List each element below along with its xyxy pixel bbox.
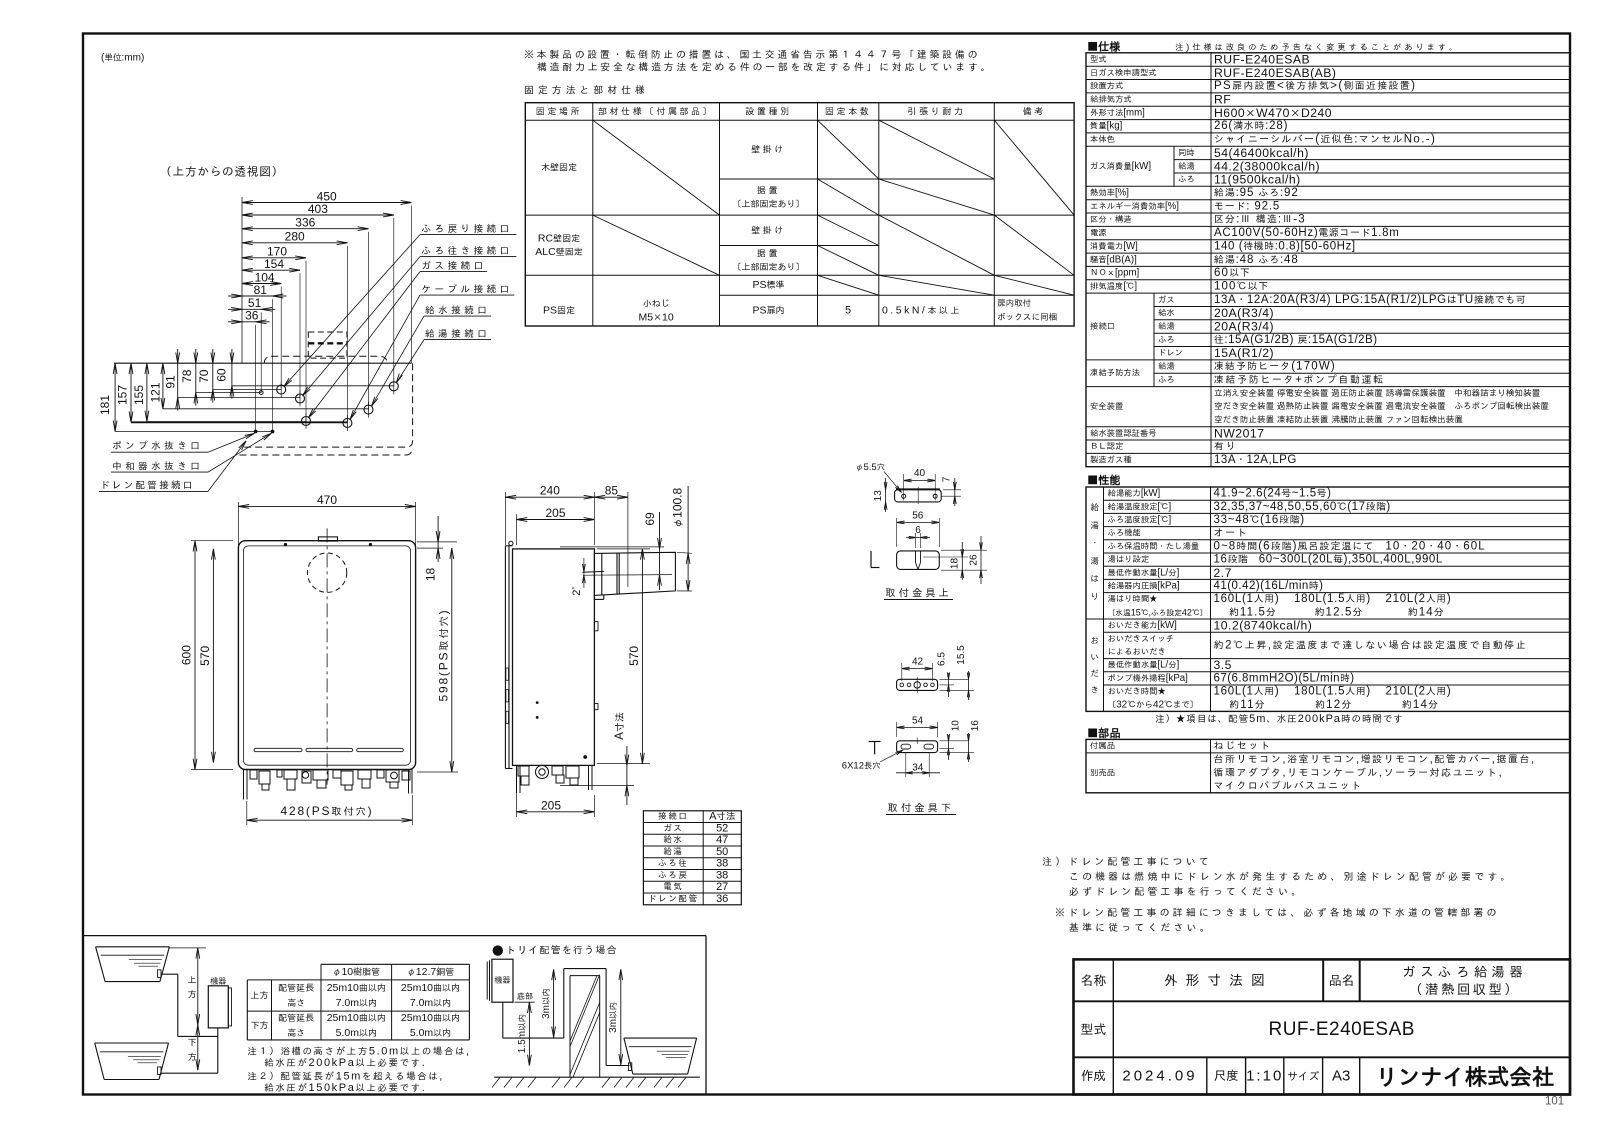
- svg-text:154: 154: [264, 257, 284, 271]
- svg-text:騒音[dB(A)]: 騒音[dB(A)]: [1090, 254, 1137, 265]
- fixing table diagonals: [593, 120, 720, 215]
- svg-text:160L(1人用) 180L(1.5人用) 210L(: 160L(1人用) 180L(1.5人用) 210L(2人用): [1214, 593, 1452, 605]
- svg-text:給湯: 給湯: [1158, 361, 1175, 372]
- bracket lower plate1: [897, 679, 938, 690]
- svg-text:ふろ: ふろ: [1178, 174, 1195, 185]
- svg-text:7.0m以内: 7.0m以内: [410, 997, 451, 1009]
- svg-text:ガス接続口: ガス接続口: [421, 260, 486, 272]
- svg-text:600: 600: [180, 645, 194, 665]
- svg-text:36: 36: [716, 893, 728, 905]
- svg-text:※本製品の設置・転倒防止の措置は、国土交通省告示第１４４７号: ※本製品の設置・転倒防止の措置は、国土交通省告示第１４４７号「建築設備の: [524, 49, 980, 61]
- svg-text:付属品: 付属品: [1090, 741, 1115, 752]
- svg-text:外形寸法図: 外形寸法図: [1164, 972, 1273, 989]
- side view bottom connectors: [518, 766, 529, 776]
- svg-text:機器: 機器: [494, 975, 511, 986]
- svg-text:区分・構造: 区分・構造: [1090, 214, 1132, 225]
- svg-text:おいだき能力[kW]: おいだき能力[kW]: [1108, 620, 1177, 631]
- svg-text:給排気方式: 給排気方式: [1090, 94, 1132, 105]
- svg-text:25m10曲以内: 25m10曲以内: [401, 982, 460, 994]
- svg-text:RC壁固定: RC壁固定: [538, 233, 580, 245]
- svg-text:取付金具下: 取付金具下: [888, 801, 955, 815]
- svg-text:尺度: 尺度: [1214, 1068, 1239, 1084]
- torii dim 3m以内 left: [553, 969, 555, 1037]
- svg-text:φ100.8: φ100.8: [671, 488, 685, 529]
- svg-text:注１）浴槽の高さが上方5.0m以上の場合は,: 注１）浴槽の高さが上方5.0m以上の場合は,: [247, 1046, 470, 1058]
- svg-text:5.0m以内: 5.0m以内: [410, 1027, 451, 1039]
- svg-text:240: 240: [540, 484, 560, 498]
- svg-text:A寸法: A寸法: [709, 811, 735, 823]
- svg-text:(単位:mm): (単位:mm): [101, 53, 144, 64]
- svg-text:中和器水抜き口: 中和器水抜き口: [112, 461, 203, 473]
- side view dim 240: [504, 492, 506, 545]
- svg-text:ＢＬ認定: ＢＬ認定: [1090, 441, 1124, 452]
- svg-text:製造ガス種: 製造ガス種: [1090, 455, 1132, 466]
- svg-text:壁掛け: 壁掛け: [751, 144, 786, 156]
- perspective dim extension verticals: [411, 206, 413, 364]
- bracket hook profile: [897, 551, 940, 570]
- svg-text:25m10曲以内: 25m10曲以内: [401, 1012, 460, 1024]
- perspective top reference line: [114, 362, 412, 364]
- svg-text:下方: 下方: [250, 1020, 268, 1032]
- svg-text:高さ: 高さ: [287, 1027, 305, 1039]
- svg-text:1:10: 1:10: [1246, 1067, 1283, 1084]
- svg-text:は: は: [1090, 574, 1099, 585]
- svg-text:18: 18: [949, 558, 960, 570]
- svg-text:25m10曲以内: 25m10曲以内: [327, 1012, 386, 1024]
- svg-text:基準に従ってください。: 基準に従ってください。: [1069, 922, 1213, 934]
- svg-text:固定本数: 固定本数: [825, 106, 871, 118]
- svg-text:接続口: 接続口: [1090, 321, 1115, 332]
- side view left wall: [504, 546, 506, 769]
- svg-text:機器: 機器: [210, 976, 227, 987]
- svg-text:排気温度[℃]: 排気温度[℃]: [1090, 281, 1137, 292]
- svg-text:配管延長: 配管延長: [278, 982, 315, 994]
- bracket dim 40: [903, 474, 905, 492]
- svg-text:18: 18: [424, 568, 438, 582]
- svg-text:固定方法と部材仕様: 固定方法と部材仕様: [524, 85, 649, 97]
- svg-text:リンナイ株式会社: リンナイ株式会社: [1375, 1061, 1554, 1091]
- front view dashed exhaust circle: [307, 553, 346, 592]
- svg-text:A3: A3: [1332, 1067, 1350, 1084]
- svg-text:ドレン: ドレン: [1158, 348, 1183, 359]
- svg-text:157: 157: [116, 385, 130, 405]
- svg-text:方: 方: [187, 989, 196, 1001]
- front view dim 428(PS取付穴): [246, 801, 248, 825]
- piping dim 下方: [197, 1025, 199, 1070]
- svg-text:マイクロバブルバスユニット: マイクロバブルバスユニット: [1214, 780, 1363, 792]
- svg-text:接続口: 接続口: [658, 811, 688, 822]
- svg-text:〔32℃から42℃まで〕: 〔32℃から42℃まで〕: [1108, 699, 1199, 710]
- svg-text:給水装置認証番号: 給水装置認証番号: [1090, 428, 1157, 439]
- torii 機器 box: [492, 959, 513, 1002]
- svg-text:湯: 湯: [1090, 520, 1099, 531]
- svg-text:16: 16: [970, 720, 981, 732]
- svg-text:外形寸法[mm]: 外形寸法[mm]: [1090, 107, 1145, 118]
- perspective port horizontal lines: [232, 385, 394, 387]
- svg-text:205: 205: [541, 798, 561, 812]
- bracket dim 34: [905, 752, 907, 777]
- torii pipe: [502, 1002, 504, 1038]
- svg-text:熱効率[%]: 熱効率[%]: [1090, 188, 1129, 199]
- svg-text:25m10曲以内: 25m10曲以内: [327, 982, 386, 994]
- perspective ports: [277, 385, 286, 394]
- side view dim 85: [627, 492, 629, 587]
- svg-text:A寸法: A寸法: [614, 712, 626, 740]
- svg-text:121: 121: [149, 382, 163, 402]
- svg-text:13: 13: [873, 490, 884, 502]
- bracket upper plate: [895, 490, 942, 502]
- svg-text:PS扉内: PS扉内: [752, 305, 784, 317]
- svg-text:本体色: 本体色: [1090, 134, 1115, 145]
- svg-text:ガスふろ給湯器: ガスふろ給湯器: [1402, 964, 1527, 981]
- svg-text:給水接続口: 給水接続口: [425, 305, 490, 317]
- svg-text:570: 570: [627, 646, 641, 666]
- svg-text:（上方からの透視図）: （上方からの透視図）: [160, 164, 284, 179]
- svg-text:凍結予防方法: 凍結予防方法: [1090, 368, 1140, 379]
- svg-text:り: り: [1090, 592, 1099, 603]
- svg-text:必ずドレン配管工事を行ってください。: 必ずドレン配管工事を行ってください。: [1069, 886, 1304, 898]
- svg-text:13A・12A,LPG: 13A・12A,LPG: [1214, 454, 1297, 466]
- svg-text:52: 52: [716, 822, 728, 834]
- bracket dim 56: [896, 518, 898, 547]
- svg-text:〔水温15℃,ふろ設定42℃〕: 〔水温15℃,ふろ設定42℃〕: [1108, 607, 1208, 617]
- bracket dims 18 26: [923, 556, 968, 558]
- svg-text:部材仕様〔付属部品〕: 部材仕様〔付属部品〕: [598, 106, 714, 118]
- svg-text:140 (待機時:0.8)[50-60Hz]: 140 (待機時:0.8)[50-60Hz]: [1214, 240, 1356, 252]
- piping tub upper-left: [96, 946, 170, 948]
- svg-text:給湯: 給湯: [1178, 161, 1195, 172]
- svg-text:同時: 同時: [1178, 147, 1195, 158]
- svg-text:6.5: 6.5: [936, 652, 947, 666]
- front view top flue bump: [318, 537, 337, 541]
- svg-text:木壁固定: 木壁固定: [541, 162, 577, 174]
- side view flue centerline: [583, 574, 672, 577]
- side view dim phi100.8: [677, 552, 692, 553]
- performance table grid: [1086, 487, 1570, 711]
- fixing-method table grid: [525, 103, 1074, 326]
- svg-text:給湯: 給湯: [1158, 321, 1175, 332]
- svg-text:67(6.8mmH2O)(5L/min時): 67(6.8mmH2O)(5L/min時): [1214, 672, 1355, 684]
- svg-text:壁掛け: 壁掛け: [751, 224, 786, 236]
- bracket dim 6: [915, 533, 917, 548]
- svg-text:M5×10: M5×10: [638, 312, 673, 324]
- svg-text:6: 6: [915, 525, 921, 536]
- svg-text:い: い: [1090, 652, 1099, 663]
- svg-text:固定場所: 固定場所: [536, 106, 582, 118]
- svg-text:ガス: ガス: [1158, 294, 1175, 305]
- front view centerline: [326, 528, 328, 784]
- spec table grid: [1086, 53, 1570, 467]
- svg-text:配管延長: 配管延長: [278, 1012, 315, 1024]
- ground line and hatching: [494, 1076, 700, 1078]
- svg-text:85: 85: [605, 484, 619, 498]
- svg-text:78: 78: [180, 369, 194, 383]
- side view left wall slots: [506, 668, 509, 680]
- svg-text:立消え安全装置 停電安全装置 過圧防止装置 誘導雷保護装置: 立消え安全装置 停電安全装置 過圧防止装置 誘導雷保護装置 中和器詰まり検知装置: [1214, 388, 1541, 399]
- svg-text:〔上部固定あり〕: 〔上部固定あり〕: [732, 198, 804, 210]
- svg-text:10: 10: [950, 720, 961, 732]
- svg-text:H600×W470×D240: H600×W470×D240: [1214, 106, 1332, 120]
- front view legs: [243, 770, 245, 800]
- svg-text:注）★項目は、配管5m、水圧200kPa時の時間です: 注）★項目は、配管5m、水圧200kPa時の時間です: [1155, 713, 1404, 725]
- svg-text:0~8時間(6段階)風呂設定温にて 10・20・40・60L: 0~8時間(6段階)風呂設定温にて 10・20・40・60L: [1214, 540, 1486, 552]
- front view dim 18: [417, 541, 457, 543]
- svg-text:1.5m以内: 1.5m以内: [517, 1014, 528, 1053]
- svg-text:区分:Ⅲ 構造:Ⅲ-3: 区分:Ⅲ 構造:Ⅲ-3: [1214, 214, 1306, 226]
- svg-text:54: 54: [912, 716, 924, 727]
- svg-text:38: 38: [716, 869, 728, 881]
- svg-text:160L(1人用) 180L(1.5人用) 210L(: 160L(1人用) 180L(1.5人用) 210L(2人用): [1214, 686, 1452, 698]
- svg-text:ふろ戻り接続口: ふろ戻り接続口: [421, 223, 512, 235]
- svg-text:11(9500kcal/h): 11(9500kcal/h): [1214, 173, 1301, 187]
- svg-text:69: 69: [643, 512, 657, 526]
- svg-text:ドレン配管接続口: ドレン配管接続口: [100, 480, 195, 492]
- svg-text:428(PS取付穴): 428(PS取付穴): [281, 804, 374, 818]
- svg-text:上: 上: [187, 974, 196, 986]
- piping box: [83, 935, 706, 937]
- front view dim 600: [191, 540, 233, 542]
- svg-text:205: 205: [545, 506, 565, 520]
- svg-text:消費電力[W]: 消費電力[W]: [1090, 241, 1138, 252]
- svg-text:φ12.7銅管: φ12.7銅管: [407, 966, 454, 978]
- svg-text:φ5.5穴: φ5.5穴: [855, 462, 885, 473]
- svg-text:〔上部固定あり〕: 〔上部固定あり〕: [732, 261, 804, 273]
- svg-text:60: 60: [214, 368, 228, 382]
- svg-text:空だき防止装置 凍結防止装置 沸騰防止装置 ファン回転検出装: 空だき防止装置 凍結防止装置 沸騰防止装置 ファン回転検出装置: [1214, 415, 1463, 426]
- svg-text:44.2(38000kcal/h): 44.2(38000kcal/h): [1214, 159, 1320, 173]
- front view dim 570: [212, 549, 214, 763]
- svg-text:570: 570: [198, 645, 212, 665]
- svg-text:5.0m以内: 5.0m以内: [336, 1027, 377, 1039]
- svg-text:42: 42: [912, 657, 924, 668]
- perspective drain dots: [254, 430, 258, 434]
- side view dim 205 bottom: [516, 770, 518, 817]
- A-dimension table: [643, 811, 741, 905]
- svg-text:0.5kN/本以上: 0.5kN/本以上: [882, 305, 962, 317]
- side view dots: [536, 701, 539, 704]
- svg-text:下: 下: [187, 1037, 196, 1049]
- svg-text:扉内取付: 扉内取付: [997, 298, 1031, 309]
- parts table grid: [1086, 739, 1570, 792]
- svg-text:336: 336: [295, 216, 315, 230]
- perspective left extension line: [241, 197, 243, 363]
- side view body: [513, 549, 595, 766]
- perspective horizontal dims (top ladder): [242, 202, 412, 204]
- svg-text:RUF-E240ESAB: RUF-E240ESAB: [1268, 1019, 1414, 1040]
- svg-text:60以下: 60以下: [1214, 267, 1251, 279]
- svg-text:型式: 型式: [1081, 1021, 1107, 1038]
- svg-text:41.9~2.6(24号~1.5号): 41.9~2.6(24号~1.5号): [1214, 488, 1332, 500]
- side view flue assembly: [594, 552, 675, 595]
- svg-text:50: 50: [716, 846, 728, 858]
- svg-text:約11分 約12分 約14分: 約11分 約12分 約14分: [1214, 699, 1440, 711]
- svg-text:470: 470: [317, 493, 337, 507]
- svg-text:凍結予防ヒータ(170W): 凍結予防ヒータ(170W): [1214, 361, 1336, 373]
- front view bottom connectors: [250, 770, 257, 779]
- side view right tabs: [594, 622, 598, 631]
- bracket dims 6.5 15.5: [940, 684, 955, 686]
- svg-text:設置方式: 設置方式: [1090, 81, 1124, 92]
- svg-text:7: 7: [942, 476, 953, 482]
- svg-text:湯: 湯: [1090, 556, 1099, 567]
- bracket dim 7: [943, 489, 961, 491]
- front view louvers: [254, 748, 302, 751]
- svg-text:ふろ: ふろ: [1158, 334, 1175, 345]
- svg-text:方: 方: [187, 1051, 196, 1063]
- svg-text:■部品: ■部品: [1087, 725, 1121, 740]
- side view legs: [516, 765, 518, 793]
- svg-text:最低作動水量[L/分]: 最低作動水量[L/分]: [1108, 660, 1180, 671]
- svg-text:20A(R3/4): 20A(R3/4): [1214, 306, 1274, 320]
- bracket L mark upper: [870, 551, 872, 568]
- svg-text:有り: 有り: [1214, 441, 1237, 453]
- svg-text:安全装置: 安全装置: [1090, 401, 1123, 412]
- svg-text:PS固定: PS固定: [543, 305, 575, 317]
- svg-text:質量[kg]: 質量[kg]: [1090, 121, 1122, 132]
- perspective body dashed outline: [412, 363, 414, 441]
- svg-text:PS標準: PS標準: [752, 279, 784, 291]
- svg-text:据置: 据置: [757, 184, 780, 196]
- piping tub lower-left: [95, 1042, 169, 1044]
- svg-text:3m以内: 3m以内: [541, 988, 552, 1019]
- piping table: [321, 963, 469, 965]
- svg-text:別売品: 別売品: [1090, 767, 1115, 778]
- svg-text:26: 26: [969, 554, 980, 566]
- svg-text:ポンプ水抜き口: ポンプ水抜き口: [112, 440, 203, 452]
- svg-text:27: 27: [716, 881, 728, 893]
- svg-text:RUF-E240ESAB(AB): RUF-E240ESAB(AB): [1214, 66, 1336, 80]
- svg-text:41(0.42)(16L/min時): 41(0.42)(16L/min時): [1214, 580, 1324, 592]
- title block lines: [1074, 1000, 1571, 1002]
- svg-text:ALC壁固定: ALC壁固定: [535, 246, 582, 258]
- svg-text:2024.09: 2024.09: [1122, 1067, 1197, 1084]
- svg-text:6X12長穴: 6X12長穴: [842, 761, 881, 772]
- svg-text:給湯: 給湯: [663, 846, 683, 857]
- svg-text:ＮＯｘ[ppm]: ＮＯｘ[ppm]: [1090, 268, 1139, 279]
- svg-text:101: 101: [1545, 1096, 1564, 1108]
- svg-text:100℃以下: 100℃以下: [1214, 281, 1269, 293]
- front view dim 470: [237, 502, 239, 547]
- svg-text:5: 5: [845, 305, 851, 317]
- svg-text:13A・12A:20A(R3/4) LPG:15A(R1/2: 13A・12A:20A(R3/4) LPG:15A(R1/2)LPGはTU接続で…: [1214, 294, 1526, 306]
- svg-text:ねじセット: ねじセット: [1214, 740, 1272, 752]
- perspective dashed top-front edge: [264, 356, 387, 363]
- torii dim 3m以内 right: [620, 969, 622, 1064]
- svg-text:お: お: [1090, 636, 1099, 647]
- svg-text:※ドレン配管工事の詳細につきましては、必ず各地域の下水道の管: ※ドレン配管工事の詳細につきましては、必ず各地域の下水道の管轄部署の: [1055, 907, 1500, 919]
- svg-text:電気: 電気: [663, 882, 683, 893]
- svg-text:RUF-E240ESAB: RUF-E240ESAB: [1214, 53, 1310, 67]
- svg-text:ふろ温度設定[℃]: ふろ温度設定[℃]: [1108, 515, 1172, 526]
- front view body outline: [238, 541, 415, 770]
- svg-text:■性能: ■性能: [1087, 472, 1121, 487]
- svg-text:598(PS取付穴): 598(PS取付穴): [437, 609, 451, 702]
- svg-text:循環アダプタ,リモコンケーブル,ソーラー対応ユニット,: 循環アダプタ,リモコンケーブル,ソーラー対応ユニット,: [1213, 767, 1504, 779]
- svg-text:70: 70: [197, 369, 211, 383]
- svg-text:作成: 作成: [1081, 1068, 1106, 1084]
- svg-text:給水圧が150kPa以上必要です.: 給水圧が150kPa以上必要です.: [264, 1082, 426, 1094]
- svg-text:ドレン配管: ドレン配管: [648, 893, 698, 904]
- svg-text:給湯能力[kW]: 給湯能力[kW]: [1108, 488, 1161, 499]
- bracket dims 10 16: [940, 747, 955, 749]
- svg-text:約2℃上昇,設定温度まで達しない場合は設定温度で自動停止: 約2℃上昇,設定温度まで達しない場合は設定温度で自動停止: [1214, 639, 1528, 651]
- svg-text:91: 91: [163, 375, 177, 389]
- svg-text:ふろ保温時間・たし湯量: ふろ保温時間・たし湯量: [1108, 541, 1200, 552]
- svg-text:ガス消費量[kW]: ガス消費量[kW]: [1090, 161, 1151, 172]
- svg-text:給水: 給水: [663, 835, 683, 846]
- svg-text:給湯温度設定[℃]: 給湯温度設定[℃]: [1108, 501, 1172, 512]
- svg-text:給湯:48 ふろ:48: 給湯:48 ふろ:48: [1214, 254, 1299, 266]
- svg-text:10.2(8740kcal/h): 10.2(8740kcal/h): [1214, 619, 1313, 633]
- svg-text:によるおいだき: によるおいだき: [1108, 647, 1166, 658]
- svg-text:給水: 給水: [1158, 308, 1175, 319]
- svg-text:20A(R3/4): 20A(R3/4): [1214, 320, 1274, 334]
- svg-text:ふろ往: ふろ往: [658, 858, 688, 869]
- svg-text:高さ: 高さ: [287, 997, 305, 1009]
- svg-text:34: 34: [912, 763, 924, 774]
- svg-text:2.7: 2.7: [1214, 566, 1232, 580]
- svg-text:給水圧が200kPa以上必要です.: 給水圧が200kPa以上必要です.: [264, 1057, 426, 1069]
- svg-text:最低作動水量[L/分]: 最低作動水量[L/分]: [1108, 567, 1180, 578]
- side view dim 205 top: [516, 514, 518, 545]
- svg-text:26(満水時:28): 26(満水時:28): [1214, 120, 1288, 132]
- svg-text:ふろ戻: ふろ戻: [658, 870, 688, 881]
- svg-text:この機器は燃焼中にドレン水が発生するため、別途ドレン配管が必: この機器は燃焼中にドレン水が発生するため、別途ドレン配管が必要です。: [1069, 871, 1514, 883]
- svg-text:備考: 備考: [1023, 106, 1046, 118]
- svg-text:き: き: [1090, 685, 1099, 696]
- svg-text:おいだきスイッチ: おいだきスイッチ: [1108, 633, 1175, 644]
- svg-text:モード: 92.5: モード: 92.5: [1214, 200, 1280, 212]
- title block outer: [1074, 959, 1571, 1094]
- front view top screws: [284, 543, 287, 546]
- svg-text:品名: 品名: [1329, 972, 1355, 989]
- piping pipe route left diagram: [161, 973, 178, 975]
- front view dim 598(PS取付穴): [417, 771, 458, 773]
- svg-text:おいだき時間★: おいだき時間★: [1108, 686, 1166, 697]
- svg-text:15A(R1/2): 15A(R1/2): [1214, 346, 1274, 360]
- svg-text:7.0m以内: 7.0m以内: [336, 997, 377, 1009]
- bracket dim 42: [901, 663, 903, 681]
- svg-text:ふろ: ふろ: [1158, 374, 1175, 385]
- svg-text:小ねじ: 小ねじ: [643, 298, 670, 310]
- svg-text:40: 40: [914, 468, 926, 479]
- svg-text:湯はり設定: 湯はり設定: [1108, 554, 1150, 565]
- svg-text:・: ・: [1090, 538, 1099, 549]
- svg-text:エネルギー消費効率[%]: エネルギー消費効率[%]: [1090, 201, 1179, 212]
- svg-text:181: 181: [98, 395, 112, 415]
- svg-text:取付金具上: 取付金具上: [885, 586, 952, 600]
- svg-text:（潜熱回収型）: （潜熱回収型）: [1409, 981, 1520, 998]
- svg-text:81: 81: [254, 283, 268, 297]
- svg-text:NW2017: NW2017: [1214, 426, 1264, 440]
- svg-text:底部: 底部: [517, 991, 533, 1002]
- svg-text:台所リモコン,浴室リモコン,増設リモコン,配管カバー,据置台: 台所リモコン,浴室リモコン,増設リモコン,配管カバー,据置台,: [1214, 754, 1536, 766]
- svg-text:ポンプ機外揚程[kPa]: ポンプ機外揚程[kPa]: [1108, 673, 1188, 684]
- svg-text:注)仕様は改良のため予告なく変更することがあります。: 注)仕様は改良のため予告なく変更することがあります。: [1175, 42, 1460, 53]
- svg-text:日ガス検申請型式: 日ガス検申請型式: [1090, 67, 1157, 78]
- svg-text:ふろ往き接続口: ふろ往き接続口: [421, 245, 512, 257]
- svg-text:■仕様: ■仕様: [1087, 39, 1121, 54]
- svg-text:54(46400kcal/h): 54(46400kcal/h): [1214, 146, 1309, 160]
- svg-text:φ10樹脂管: φ10樹脂管: [332, 966, 380, 978]
- piping dim 上方: [169, 947, 206, 949]
- svg-text:給: 給: [1090, 503, 1099, 514]
- perspective flue dashed rect: [308, 332, 347, 358]
- perspective left vertical dims: [114, 363, 116, 431]
- svg-text:引張り耐力: 引張り耐力: [907, 106, 965, 118]
- svg-text:設置種別: 設置種別: [745, 106, 791, 118]
- svg-text:47: 47: [716, 834, 728, 846]
